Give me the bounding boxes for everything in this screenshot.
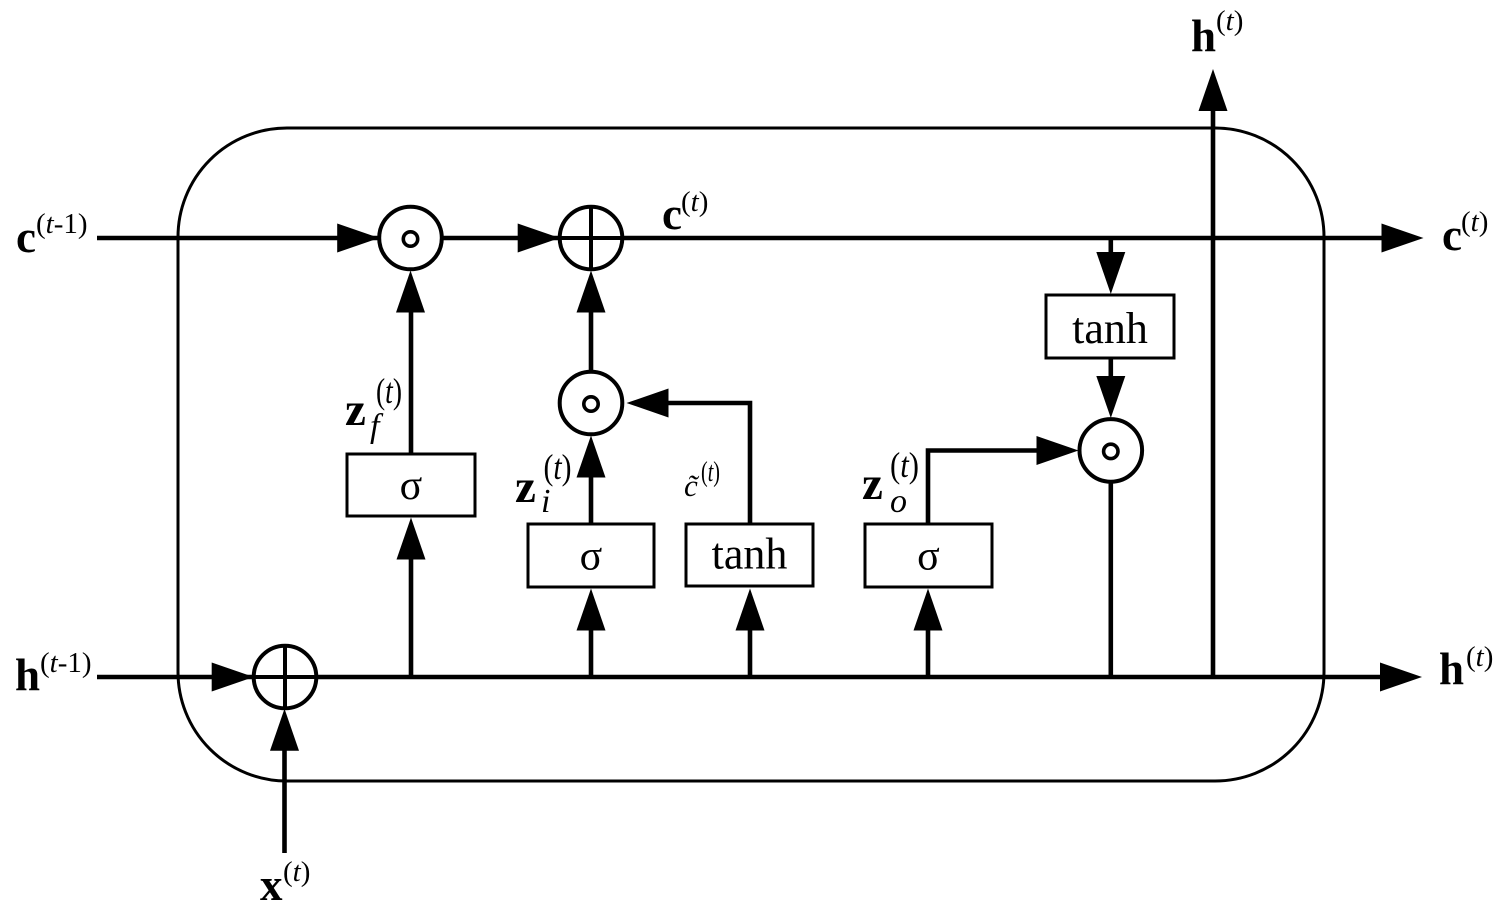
svg-text:z: z [345, 384, 366, 436]
arrowhead: into sigma-o from below [914, 589, 943, 631]
node: cell add (circled plus) [560, 207, 623, 270]
arrowhead: c^(t) output [1382, 224, 1424, 253]
wire: sigma-f output up to forget product [409, 310, 414, 454]
arrowhead: h^(t) output top [1199, 69, 1228, 111]
arrowhead: x^(t) into plus-bottom [270, 709, 299, 751]
wire: input product up to plus node [589, 310, 594, 373]
arrowhead: into cell add from below [577, 271, 606, 313]
svg-text:h: h [1191, 11, 1216, 61]
wire: sigma-f feed from h line [409, 556, 414, 677]
svg-text:(t): (t) [681, 186, 708, 218]
box: sigma input gate [528, 524, 654, 587]
svg-text:z: z [515, 461, 536, 513]
wire: h^(t-1) to h^(t) bottom horizontal line [97, 675, 1386, 680]
node: forget gate product (elementwise multiply) [379, 207, 442, 270]
svg-text:tanh: tanh [712, 530, 788, 579]
svg-text:o: o [890, 483, 907, 520]
LSTM cell boundary (rounded rectangle) [178, 128, 1324, 781]
svg-text:x: x [260, 860, 283, 910]
wire: tanh feed from h line [748, 627, 753, 677]
svg-text:(t): (t) [1466, 641, 1493, 673]
wire: x^(t) input riser [282, 746, 287, 853]
wire: sigma-i output up to input product [589, 474, 594, 524]
arrowhead: into sigma-f from below [397, 518, 426, 560]
wire: tanh box down to output product [1109, 358, 1114, 380]
arrowhead: into output product from above [1096, 376, 1125, 418]
svg-text:(t-1): (t-1) [40, 647, 92, 679]
svg-text:(t-1): (t-1) [36, 208, 88, 240]
arrowhead: into sigma-i from below [577, 589, 606, 631]
svg-text:σ: σ [580, 534, 603, 580]
wire: sigma-o feed from h line [926, 627, 931, 677]
arrowhead: into input product from below [577, 436, 606, 478]
svg-text:(t): (t) [1216, 5, 1243, 37]
svg-text:h: h [15, 650, 40, 700]
svg-text:σ: σ [917, 534, 940, 580]
node: input concat add (circled plus) [254, 646, 317, 709]
wire: c line branch down to tanh box [1109, 238, 1114, 256]
box: tanh output [1046, 295, 1174, 358]
arrowhead: into forget product from left [337, 224, 379, 253]
arrowhead: into tanh-bottom from below [736, 589, 765, 631]
svg-text:(t): (t) [283, 856, 310, 888]
arrowhead: into output product from left [1037, 436, 1079, 465]
svg-text:(t): (t) [701, 457, 720, 488]
arrowhead: into plus-bottom from left [212, 663, 254, 692]
svg-text:(t): (t) [890, 445, 919, 485]
svg-text:c: c [1442, 210, 1462, 260]
box: tanh candidate [686, 524, 813, 586]
box: sigma forget gate [347, 454, 475, 516]
arrowhead: into forget product from below [396, 271, 425, 313]
arrowhead: into input product from right [627, 389, 669, 418]
arrowhead: into cell add from left [518, 224, 560, 253]
svg-text:h: h [1439, 644, 1464, 694]
wire: h^(t) vertical riser [1211, 108, 1216, 677]
node: output gate product (elementwise multiply) [1080, 419, 1143, 482]
arrowhead: h^(t) output bottom right [1380, 663, 1422, 692]
svg-text:c: c [662, 189, 682, 239]
svg-text:c̃: c̃ [684, 468, 700, 503]
svg-text:(t): (t) [376, 371, 402, 411]
svg-text:σ: σ [400, 463, 423, 509]
svg-text:(t): (t) [544, 447, 572, 487]
wire: sigma-i feed from h line [589, 627, 594, 677]
wire: sigma-o elbow to output product [928, 451, 1040, 525]
box: sigma output gate [865, 524, 992, 587]
wire: c^(t-1) to c^(t) main horizontal line [97, 236, 1386, 241]
svg-text:c: c [16, 212, 36, 262]
wire: output product down to h line [1109, 480, 1114, 677]
svg-text:z: z [862, 458, 883, 510]
svg-text:tanh: tanh [1072, 304, 1148, 353]
wire: tanh candidate elbow to input product [666, 403, 750, 524]
svg-text:(t): (t) [1461, 206, 1488, 238]
svg-text:i: i [541, 483, 550, 520]
arrowhead: into tanh-right from above [1096, 252, 1125, 294]
node: input gate product (elementwise multiply) [560, 372, 623, 435]
